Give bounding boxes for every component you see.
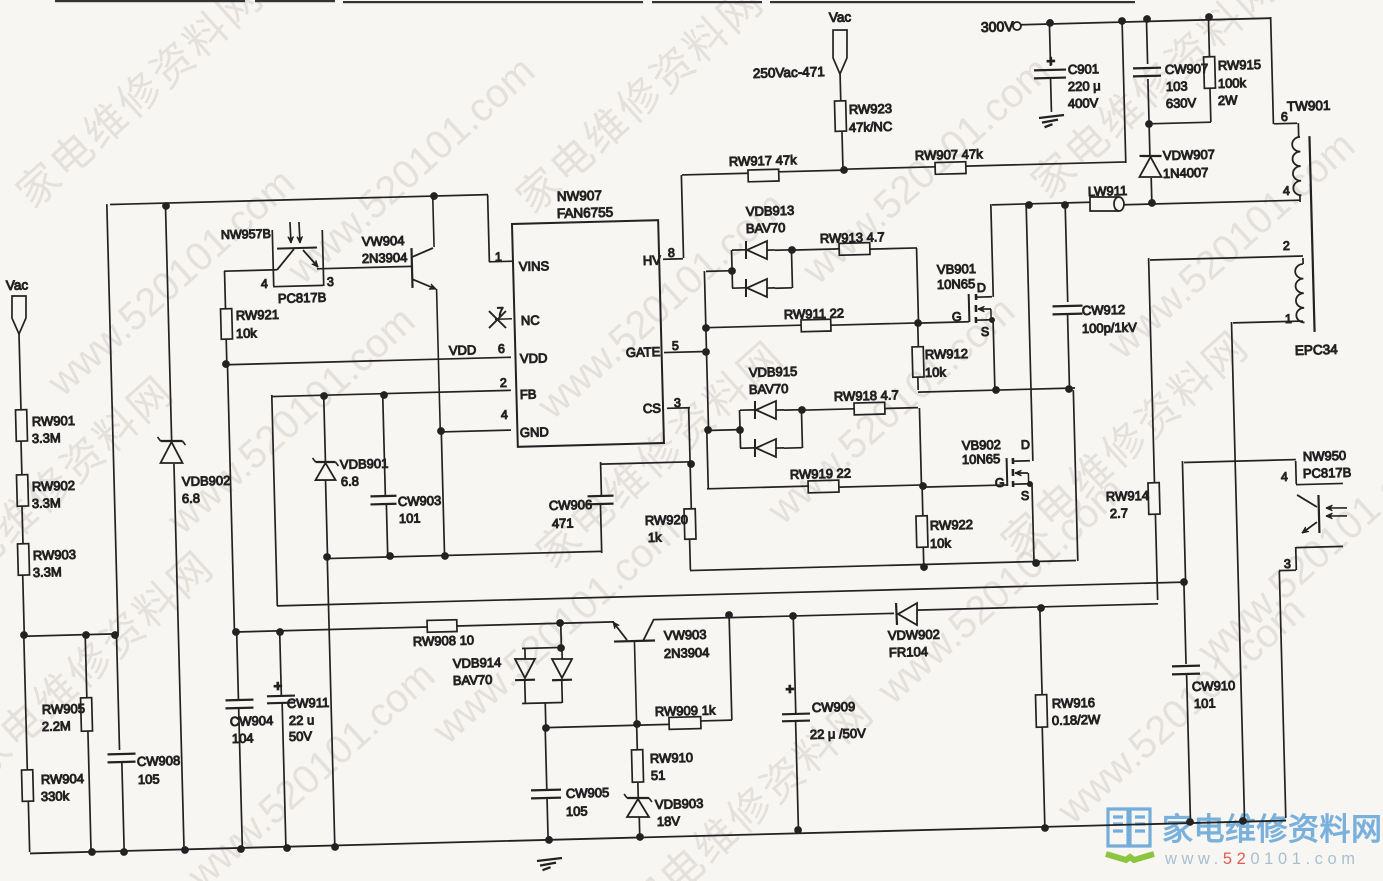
svg-text:RW908 10: RW908 10 <box>413 632 475 649</box>
transistor VB902 10N65 MOSFET <box>1006 458 1009 486</box>
dot CW912 top <box>1061 201 1069 209</box>
dot CW909@rail <box>794 826 802 834</box>
svg-text:RW903: RW903 <box>33 547 77 563</box>
dot VDB913 topright <box>788 246 796 254</box>
optocoupler NW957B PC817B <box>272 230 273 286</box>
dot GND junction <box>437 427 445 435</box>
wire pin2 down to RW914 <box>1149 258 1155 483</box>
svg-text:VDB903: VDB903 <box>655 796 704 812</box>
wire S-line corner down <box>1073 390 1077 561</box>
dot VDB901@rail <box>331 843 339 851</box>
pin 7 NC no-connect X <box>495 318 512 320</box>
svg-text:+: + <box>273 678 282 695</box>
wire VDD line <box>226 357 511 364</box>
svg-text:47k/NC: 47k/NC <box>849 119 893 135</box>
dot VDB914 bottom <box>542 724 550 732</box>
wire up to NW950 pin4 <box>1182 461 1185 582</box>
wire Vac left stem <box>19 334 21 410</box>
dot VDB915 left <box>736 426 744 434</box>
dot VDB902 top <box>162 202 170 210</box>
wire FB corner down <box>272 395 278 606</box>
dot VW904 collector <box>430 192 438 200</box>
svg-text:2: 2 <box>500 376 507 390</box>
svg-text:2N3904: 2N3904 <box>664 645 710 661</box>
dot CW910@rail <box>1186 818 1194 826</box>
svg-text:250Vac-471: 250Vac-471 <box>753 64 825 81</box>
svg-text:VW904: VW904 <box>362 233 405 249</box>
dot RW915 rail <box>1205 13 1213 21</box>
svg-text:4: 4 <box>261 277 268 291</box>
dot CW907 rail <box>1143 15 1151 23</box>
dot RW911 tap <box>702 324 710 332</box>
resistor RW915 <box>1208 17 1209 57</box>
wire top-left rail <box>110 195 488 205</box>
svg-text:RW911 22: RW911 22 <box>784 305 845 322</box>
svg-text:22 u: 22 u <box>289 712 315 728</box>
svg-text:TW901: TW901 <box>1287 98 1331 114</box>
dot FB-VDB901 <box>320 392 328 400</box>
dot CW904@rail <box>237 845 245 853</box>
svg-text:CW911: CW911 <box>287 695 330 711</box>
svg-text:S: S <box>1021 489 1030 503</box>
svg-text:CS: CS <box>643 401 662 416</box>
svg-text:CW906: CW906 <box>549 497 593 513</box>
svg-text:VDW907: VDW907 <box>1163 147 1215 163</box>
svg-text:BAV70: BAV70 <box>746 220 786 236</box>
dot RW905@rail <box>88 848 96 856</box>
dot RW916@rail <box>1041 824 1049 832</box>
svg-text:D: D <box>1021 438 1030 452</box>
dot C901 rail <box>1046 19 1054 27</box>
svg-text:VDW902: VDW902 <box>888 627 940 643</box>
wire pin1 down <box>1231 322 1244 820</box>
svg-text:RW902: RW902 <box>32 478 76 494</box>
top scan border dashes <box>55 0 245 2</box>
svg-text:22 μ /50V: 22 μ /50V <box>810 726 867 742</box>
svg-text:www.520101.com: www.520101.com <box>1164 850 1360 868</box>
svg-text:NW907: NW907 <box>557 188 602 204</box>
wire pin2 lead <box>1150 256 1303 260</box>
svg-text:1: 1 <box>1285 312 1292 326</box>
wire VB901 source line <box>918 388 1075 392</box>
wire RW909 up to collector <box>729 616 732 720</box>
dot RW908-VDB914 <box>556 619 564 627</box>
svg-text:51: 51 <box>651 768 666 783</box>
svg-text:RW917 47k: RW917 47k <box>729 152 798 169</box>
dot VB902 drain top <box>1025 201 1033 209</box>
dot CW912 bottom <box>1065 385 1073 393</box>
capacitor CW904 <box>226 699 254 702</box>
dot chain@junction <box>20 631 28 639</box>
dot x441@gnd-line <box>441 552 449 560</box>
svg-text:CW905: CW905 <box>566 785 610 801</box>
resistor RW901 <box>15 410 27 442</box>
transistor VW903 2N3904 <box>614 641 655 642</box>
dot pin1@rail <box>1239 817 1247 825</box>
resistor RW905 <box>85 635 87 698</box>
svg-text:S: S <box>981 325 990 339</box>
logo 520101 bottom right <box>1106 809 1383 868</box>
dot RW909@collector <box>725 611 733 619</box>
capacitor CW911 <box>280 632 282 695</box>
svg-text:VB901: VB901 <box>937 261 976 277</box>
wire collector line <box>654 613 894 619</box>
capacitor CW907 <box>1146 19 1147 64</box>
wire pin4 lead <box>224 270 277 271</box>
capacitor CW912 100p/1kV <box>1065 205 1068 302</box>
svg-text:RW921: RW921 <box>236 307 280 323</box>
svg-text:6.8: 6.8 <box>341 474 359 489</box>
svg-text:10k: 10k <box>930 535 952 551</box>
resistor RW903 <box>17 544 29 576</box>
wire A-line long feedback <box>277 582 1184 606</box>
dot VB901 S <box>992 386 1000 394</box>
resistor RW908 <box>236 627 427 632</box>
svg-text:RW913 4.7: RW913 4.7 <box>820 229 885 246</box>
wire diode to corner <box>917 604 1158 610</box>
wire x706 vertical <box>704 271 708 430</box>
svg-text:2: 2 <box>1283 239 1290 253</box>
svg-text:10N65: 10N65 <box>962 451 1001 467</box>
svg-text:FAN6755: FAN6755 <box>557 205 614 221</box>
svg-text:RW914: RW914 <box>1106 488 1150 504</box>
wire RW913 corner down <box>917 248 919 322</box>
diode VDW907 1N4007 <box>1148 124 1151 155</box>
wire <box>20 441 23 475</box>
wire pin1 drop <box>488 195 490 262</box>
svg-text:VDB902: VDB902 <box>182 473 231 489</box>
capacitor CW909 22u/50V <box>793 616 796 713</box>
capacitor C901 <box>1049 23 1050 66</box>
node Vac terminal top <box>832 30 848 74</box>
svg-text:RW909 1k: RW909 1k <box>655 702 716 719</box>
dot RW921-VDD <box>222 360 230 368</box>
svg-text:RW901: RW901 <box>32 413 76 429</box>
svg-text:NC: NC <box>521 313 540 328</box>
svg-text:101: 101 <box>399 510 421 526</box>
wire pin1 lead <box>1233 321 1303 323</box>
dot VDB902@rail <box>181 846 189 854</box>
wire pin3 route <box>1295 547 1298 570</box>
dot CW905@rail <box>545 836 553 844</box>
resistor RW917 <box>682 173 748 175</box>
svg-text:RW923: RW923 <box>849 101 893 117</box>
wire HV riser <box>681 175 683 258</box>
resistor RW919 22 <box>707 430 709 488</box>
node 300V terminal <box>1013 22 1021 30</box>
wire Vac stem <box>839 74 842 101</box>
svg-text:3.3M: 3.3M <box>32 495 61 511</box>
wire GND pin <box>441 430 511 432</box>
svg-text:2.2M: 2.2M <box>42 718 71 734</box>
wire CS pin <box>667 407 690 410</box>
capacitor CW903 <box>383 395 386 495</box>
inductor LW911 <box>1090 196 1120 212</box>
wire FB line <box>272 390 511 396</box>
svg-text:50V: 50V <box>289 728 313 744</box>
svg-text:BAV70: BAV70 <box>749 381 789 397</box>
svg-text:400V: 400V <box>1068 95 1099 111</box>
dot CW911@rail <box>283 844 291 852</box>
dot tall@rail <box>120 848 128 856</box>
svg-text:G: G <box>995 476 1005 490</box>
wire <box>21 506 24 544</box>
svg-text:FR104: FR104 <box>889 644 928 660</box>
svg-text:RW912: RW912 <box>925 346 969 362</box>
svg-text:220 μ: 220 μ <box>1068 78 1101 94</box>
svg-text:4: 4 <box>501 408 508 422</box>
svg-text:CW904: CW904 <box>230 713 274 729</box>
wire gate lead VB902 <box>923 485 1007 487</box>
svg-text:VINS: VINS <box>519 258 550 274</box>
svg-text:CW903: CW903 <box>398 493 442 509</box>
svg-text:2N3904: 2N3904 <box>362 250 408 266</box>
svg-text:100k: 100k <box>1218 75 1247 91</box>
svg-text:Vac: Vac <box>6 277 29 293</box>
svg-text:GND: GND <box>520 424 549 440</box>
dot CW903@gnd-line <box>386 552 394 560</box>
svg-text:G: G <box>952 310 962 324</box>
wire gnd-line y556 <box>327 551 601 558</box>
wire bottom ground rail <box>30 821 1286 854</box>
wire to VDB915 <box>707 429 740 432</box>
svg-text:630V: 630V <box>1166 95 1197 111</box>
svg-text:RW910: RW910 <box>650 750 694 766</box>
svg-text:3: 3 <box>1284 557 1291 571</box>
ground below CW905 <box>537 858 562 861</box>
transformer TW901 primary winding <box>1292 137 1302 196</box>
dot VDB915 topright <box>798 406 806 414</box>
svg-text:6: 6 <box>1281 110 1288 124</box>
dot RW922 bottom <box>920 563 928 571</box>
diode pair VDB915 BAV70 <box>739 410 742 448</box>
resistor RW911 22 <box>706 325 801 327</box>
svg-text:300V: 300V <box>981 18 1015 35</box>
svg-text:RW918 4.7: RW918 4.7 <box>834 387 899 404</box>
svg-text:RW919 22: RW919 22 <box>790 465 852 482</box>
svg-text:RW915: RW915 <box>1218 57 1262 73</box>
svg-text:PC817B: PC817B <box>278 290 327 306</box>
wire VDB901 down to rail <box>327 557 335 846</box>
dot link <box>1145 120 1153 128</box>
svg-text:Vac: Vac <box>829 9 852 25</box>
resistor RW910 <box>636 724 639 750</box>
svg-text:2W: 2W <box>1218 92 1239 108</box>
capacitor CW905 <box>545 728 547 789</box>
svg-text:VDD: VDD <box>449 342 477 358</box>
svg-text:RW905: RW905 <box>42 701 86 717</box>
zener VDB902 6.8 <box>165 206 171 440</box>
wire junction row <box>24 634 115 636</box>
svg-text:6.8: 6.8 <box>182 491 200 506</box>
dot VDW907 bottom <box>1148 199 1156 207</box>
svg-text:8: 8 <box>668 246 675 260</box>
resistor RW918 4.7 <box>802 409 854 410</box>
svg-text:VDD: VDD <box>520 350 548 366</box>
svg-text:EPC34: EPC34 <box>1295 342 1339 358</box>
svg-text:GATE: GATE <box>626 344 661 360</box>
svg-text:RW922: RW922 <box>930 517 974 533</box>
dot tall@junction <box>111 631 119 639</box>
svg-text:RW904: RW904 <box>41 771 85 787</box>
svg-text:RW920: RW920 <box>645 512 689 528</box>
svg-text:PC817B: PC817B <box>1303 465 1352 481</box>
svg-text:103: 103 <box>1166 78 1188 94</box>
svg-text:1k: 1k <box>648 530 663 545</box>
wire 300V rail <box>1021 18 1270 25</box>
zener VDB903 18V <box>627 797 649 798</box>
wire RW904 to rail <box>28 801 29 852</box>
zener VDB901 6.8 <box>324 396 326 461</box>
svg-text:RW907 47k: RW907 47k <box>915 146 984 163</box>
resistor RW922 10k <box>921 486 924 516</box>
svg-text:101: 101 <box>1194 695 1216 711</box>
svg-text:104: 104 <box>232 730 254 746</box>
diode pair VDB914 BAV70 <box>522 647 562 648</box>
svg-text:HV: HV <box>643 253 662 268</box>
svg-text:NW950: NW950 <box>1303 448 1347 464</box>
resistor RW916 0.18/2W <box>1040 608 1042 695</box>
svg-text:2.7: 2.7 <box>1110 505 1128 520</box>
wire x1122 down <box>1122 21 1126 163</box>
dot CW909@collector <box>789 612 797 620</box>
resistor RW920 1k <box>684 509 696 540</box>
wire gate lead VB901 <box>918 322 969 323</box>
svg-text:4: 4 <box>1281 470 1288 484</box>
dot RW916 top <box>1037 604 1045 612</box>
resistor RW923 <box>834 101 846 132</box>
dot GATE tap <box>702 348 710 356</box>
wire RW921 chain to CW904 <box>237 632 239 699</box>
svg-text:18V: 18V <box>657 813 681 829</box>
transistor VB901 10N65 MOSFET <box>968 294 971 322</box>
dot base@RW909line <box>633 720 641 728</box>
ground below C901 <box>1039 115 1064 118</box>
dot G2 junction <box>919 482 927 490</box>
svg-text:CW907: CW907 <box>1165 61 1209 77</box>
op-amp U1 / IC NW907 FAN6755 box <box>512 220 664 447</box>
resistor RW912 10k <box>917 323 920 347</box>
node Vac terminal left <box>11 296 27 334</box>
resistor RW907 <box>844 167 935 169</box>
svg-text:10k: 10k <box>236 325 258 341</box>
svg-text:FB: FB <box>520 387 537 402</box>
dot VDB913 left <box>728 267 736 275</box>
wire rail to TW901 pin6 <box>1271 17 1274 124</box>
wire emitter to gnd-line <box>441 431 444 556</box>
wire RW921 down to RW908-line <box>227 364 234 632</box>
svg-text:VDB914: VDB914 <box>453 655 502 671</box>
optocoupler NW950 PC817B <box>1296 483 1343 484</box>
svg-text:BAV70: BAV70 <box>453 672 493 688</box>
svg-text:5: 5 <box>672 339 679 353</box>
svg-text:10k: 10k <box>925 364 947 380</box>
svg-text:VDB901: VDB901 <box>340 456 389 472</box>
transistor VW904 2N3904 <box>411 248 412 288</box>
svg-text:10N65: 10N65 <box>937 276 976 292</box>
svg-text:RW916: RW916 <box>1052 695 1096 711</box>
dot RW923 junction <box>840 166 848 174</box>
wire drain rail right <box>1124 200 1300 205</box>
capacitor CW908 <box>108 753 136 756</box>
resistor RW913 4.7 <box>792 249 839 250</box>
resistor RW904 <box>22 770 34 802</box>
svg-text:CW910: CW910 <box>1192 678 1236 694</box>
dot x1122 rail <box>1118 17 1126 25</box>
svg-text:VW903: VW903 <box>664 627 707 643</box>
svg-text:6: 6 <box>498 342 505 356</box>
diode VDW902 FR104 <box>895 603 898 625</box>
wire CS bottom line <box>690 560 1076 570</box>
resistor RW921 <box>224 271 227 309</box>
dot VB902 S bottom <box>1032 559 1040 567</box>
svg-text:LW911: LW911 <box>1088 183 1128 199</box>
dot VDB903@rail <box>636 833 644 841</box>
svg-text:+: + <box>785 681 794 698</box>
svg-text:CW912: CW912 <box>1082 302 1126 318</box>
capacitor CW906 <box>601 462 691 464</box>
resistor RW914 2.7 <box>1148 483 1160 515</box>
resistor RW909 <box>546 724 669 727</box>
light arrows into NW957B <box>290 222 291 243</box>
dot CW911@RW908line <box>276 628 284 636</box>
dot CS-CW906 <box>687 460 695 468</box>
dot G1 junction <box>914 319 922 327</box>
svg-text:1N4007: 1N4007 <box>1163 165 1209 181</box>
svg-text:D: D <box>977 281 986 295</box>
wire pin3 to VW904 base <box>317 266 412 268</box>
svg-text:NW957B: NW957B <box>221 227 271 242</box>
capacitor CW910 101 <box>1184 582 1186 664</box>
svg-text:VDB913: VDB913 <box>746 203 795 219</box>
svg-text:VDB915: VDB915 <box>749 364 798 380</box>
svg-text:330k: 330k <box>41 788 70 804</box>
wire chain down <box>24 635 28 770</box>
wire GATE <box>664 351 706 352</box>
svg-text:家电维修资料网: 家电维修资料网 <box>1162 812 1383 847</box>
wire RW918 corner down <box>919 408 921 485</box>
dot RW905@junction <box>82 631 90 639</box>
resistor RW902 <box>16 475 28 507</box>
wire left tall vertical <box>107 204 118 635</box>
svg-text:3.3M: 3.3M <box>33 564 62 580</box>
svg-text:100p/1kV: 100p/1kV <box>1082 320 1138 336</box>
svg-text:105: 105 <box>566 803 588 819</box>
wire CW907-RW915 link <box>1149 122 1211 124</box>
svg-text:3.3M: 3.3M <box>32 430 61 446</box>
wire to VDB913 <box>706 270 732 273</box>
svg-text:C901: C901 <box>1068 61 1099 77</box>
svg-text:3: 3 <box>327 275 334 289</box>
dot A-line junction <box>1180 578 1188 586</box>
svg-text:+: + <box>1046 53 1055 70</box>
wire drain rail left <box>992 202 1090 205</box>
transformer TW901 secondary winding <box>1295 264 1305 323</box>
diode pair VDB913 BAV70 <box>731 250 734 288</box>
dot x706 bottom <box>704 426 712 434</box>
svg-text:CW908: CW908 <box>137 753 181 769</box>
dot CW904@RW908line <box>232 628 240 636</box>
wire <box>23 575 25 635</box>
svg-text:4: 4 <box>1283 184 1290 198</box>
dot FB-CW903 <box>380 391 388 399</box>
svg-text:0.18/2W: 0.18/2W <box>1052 712 1102 728</box>
svg-text:105: 105 <box>138 771 160 787</box>
svg-text:CW909: CW909 <box>812 699 856 715</box>
svg-text:471: 471 <box>552 515 574 531</box>
dot VDB901@gnd-line <box>323 553 331 561</box>
transformer core <box>1309 136 1314 332</box>
